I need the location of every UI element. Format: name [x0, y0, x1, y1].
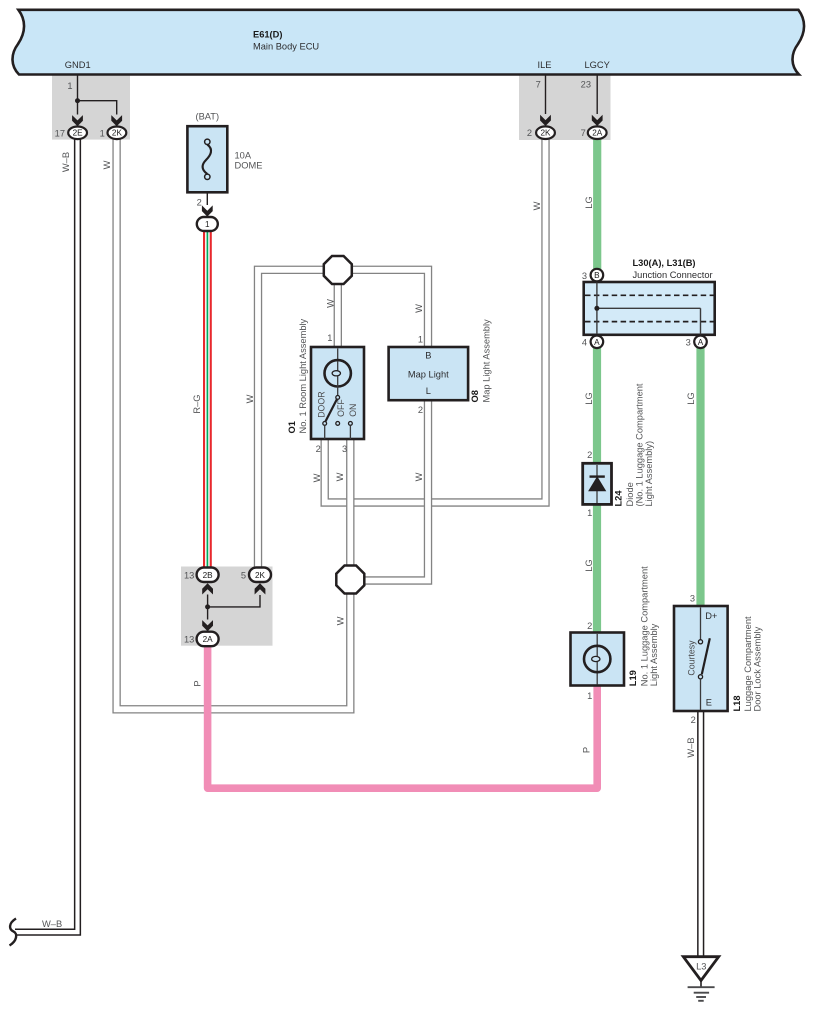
wire LG diode L24 to L19 pin2	[593, 503, 601, 634]
terminal circle 3(B)	[591, 269, 604, 282]
svg-text:L3: L3	[696, 962, 706, 972]
connector oval 2(2K)	[536, 126, 555, 139]
O1 switch common contact	[336, 396, 340, 400]
connector oval 13(2B)	[197, 568, 219, 583]
arrow into LGCY 2A	[592, 115, 603, 126]
junction internal wiring	[597, 277, 701, 338]
svg-text:L: L	[426, 386, 431, 396]
svg-text:2A: 2A	[203, 635, 214, 644]
svg-text:Light Assembly: Light Assembly	[649, 623, 659, 686]
svg-text:W: W	[245, 394, 255, 403]
continuation squiggle bottom-left	[10, 919, 17, 946]
wire W from O1 pin2 right and up to ILE 2(2K)	[325, 139, 546, 503]
svg-text:D+: D+	[705, 611, 717, 621]
svg-text:OFF: OFF	[336, 399, 346, 417]
svg-text:2B: 2B	[203, 571, 214, 580]
wire W O1 pin3 down to octagon S2	[346, 439, 354, 579]
svg-text:W–B: W–B	[61, 152, 71, 172]
wire W-B from 2E to bottom-left continuation	[15, 140, 78, 933]
svg-text:W: W	[414, 304, 424, 313]
svg-text:13: 13	[184, 570, 194, 580]
svg-text:(BAT): (BAT)	[196, 112, 220, 122]
arrow up into 2B	[202, 583, 213, 594]
junction connector L30(A),L31(B) box	[584, 282, 715, 335]
svg-text:3: 3	[690, 593, 695, 603]
junction dot 2B/2K/2A	[205, 604, 210, 609]
svg-text:ILE: ILE	[538, 60, 552, 70]
wire LG junction A right to L18 pin3	[696, 345, 704, 607]
svg-text:1: 1	[67, 81, 72, 91]
connector shield box 2B/2K/2A (gray)	[181, 567, 273, 646]
connector oval 5(2K)	[249, 568, 271, 583]
wire W octagon S1 right branch down to map light pin1	[338, 270, 428, 348]
arrow into 2E	[72, 115, 83, 126]
svg-text:W: W	[102, 160, 112, 169]
svg-text:P: P	[193, 680, 203, 686]
svg-text:Diode: Diode	[625, 482, 635, 506]
svg-text:5: 5	[241, 570, 246, 580]
svg-text:7: 7	[581, 128, 586, 138]
GND1 pin 1 wire and junction	[78, 75, 117, 115]
svg-text:L18: L18	[732, 695, 742, 711]
svg-text:Map Light Assembly: Map Light Assembly	[482, 319, 492, 403]
L18 courtesy switch	[700, 608, 702, 640]
svg-text:E: E	[706, 697, 712, 707]
svg-text:B: B	[594, 271, 600, 280]
svg-text:LGCY: LGCY	[585, 60, 610, 70]
svg-text:R–G: R–G	[192, 394, 202, 413]
svg-text:W: W	[532, 201, 542, 210]
ILE pin 7 wire	[545, 75, 547, 114]
svg-text:23: 23	[581, 80, 591, 90]
ground L3	[683, 957, 718, 981]
connector oval 1	[197, 217, 218, 231]
wire P from 2A to L19 pin1 (pink)	[208, 645, 598, 788]
svg-text:DOME: DOME	[235, 161, 263, 171]
svg-text:O8: O8	[470, 390, 480, 402]
connector oval 13(2A)	[197, 632, 219, 647]
luggage light L19 box	[571, 633, 625, 686]
O1 contacts DOOR OFF ON	[323, 422, 327, 426]
svg-text:ON: ON	[348, 404, 358, 417]
svg-text:B: B	[425, 350, 431, 360]
wire LG LGCY 2A to junction B	[593, 139, 601, 272]
svg-text:Main Body ECU: Main Body ECU	[253, 42, 319, 52]
O1 switch blade	[325, 399, 337, 422]
svg-text:4: 4	[582, 337, 587, 347]
svg-text:W: W	[326, 299, 336, 308]
connector oval 7(2A)	[588, 126, 607, 139]
svg-text:A: A	[594, 338, 600, 347]
terminal circle 3(A) right	[694, 336, 707, 349]
diode L24 box	[583, 463, 612, 504]
svg-text:1: 1	[587, 508, 592, 518]
svg-text:W–B: W–B	[42, 919, 62, 929]
arrow into ILE 2K	[540, 115, 551, 126]
fuse element symbol	[203, 145, 211, 175]
ECU E61(D) banner	[12, 10, 804, 75]
wire W map light pin2 down to octagon S2	[363, 400, 428, 581]
svg-text:13: 13	[184, 634, 194, 644]
svg-text:2: 2	[316, 444, 321, 454]
svg-text:No. 1 Room Light Assembly: No. 1 Room Light Assembly	[298, 318, 308, 433]
wire LG junction A to diode L24	[593, 345, 601, 465]
wire W from 1(2K) down and right up to octagon S2	[117, 140, 351, 710]
svg-text:A: A	[698, 338, 704, 347]
svg-text:E61(D): E61(D)	[253, 30, 282, 40]
svg-text:3: 3	[582, 271, 587, 281]
svg-text:LG: LG	[686, 392, 696, 404]
svg-text:Light Assembly): Light Assembly)	[644, 441, 654, 507]
svg-text:Luggage Compartment: Luggage Compartment	[743, 616, 753, 712]
O1 lamp symbol	[337, 349, 339, 362]
svg-text:L24: L24	[614, 490, 624, 507]
svg-text:L30(A), L31(B): L30(A), L31(B)	[633, 258, 696, 268]
svg-text:P: P	[582, 747, 592, 753]
svg-text:2: 2	[587, 450, 592, 460]
svg-text:3: 3	[342, 444, 347, 454]
arrow into 2K	[111, 115, 122, 126]
svg-text:W: W	[335, 472, 345, 481]
svg-text:Door Lock Assembly: Door Lock Assembly	[753, 626, 763, 711]
svg-text:2: 2	[197, 197, 202, 207]
svg-text:1: 1	[327, 333, 332, 343]
arrow up into 2K(5)	[255, 583, 266, 594]
map light O8 box	[389, 347, 469, 400]
connector shield box ILE/LGCY (gray)	[519, 74, 611, 140]
node S2 octagon splice	[336, 566, 364, 594]
wire W-B from L18 pin2 to ground L3	[697, 710, 704, 957]
svg-text:W: W	[312, 473, 322, 482]
connector oval 1(2K)	[108, 127, 127, 140]
node S1 octagon splice	[324, 256, 352, 284]
connector oval 17(2E)	[68, 127, 87, 140]
svg-text:Map Light: Map Light	[408, 370, 449, 380]
door lock L18 box	[674, 606, 728, 711]
wire W octagon S1 down to O1 pin1	[334, 270, 342, 348]
L19 lamp symbol	[596, 634, 598, 685]
svg-text:Courtesy: Courtesy	[687, 640, 697, 676]
junction internal node dot	[594, 306, 599, 311]
svg-text:W–B: W–B	[686, 737, 696, 757]
junction connector dashed rows	[585, 294, 714, 296]
svg-text:LG: LG	[584, 196, 594, 208]
svg-text:2: 2	[527, 128, 532, 138]
fuse pin 2 wire	[206, 192, 208, 205]
svg-text:2: 2	[691, 715, 696, 725]
svg-text:O1: O1	[287, 421, 297, 433]
svg-text:3: 3	[686, 337, 691, 347]
wire R-G from fuse oval 1 to 2B	[203, 230, 212, 568]
svg-text:1: 1	[205, 220, 210, 229]
svg-text:2K: 2K	[540, 129, 551, 138]
connector shield box GND1 (gray)	[52, 74, 130, 140]
svg-text:L19: L19	[628, 670, 638, 686]
svg-text:2E: 2E	[73, 129, 84, 138]
wire W octagon S1 left branch down to 5(2K)	[258, 270, 338, 567]
svg-text:2A: 2A	[592, 129, 603, 138]
svg-text:W: W	[336, 616, 346, 625]
svg-text:LG: LG	[584, 392, 594, 404]
svg-text:7: 7	[536, 80, 541, 90]
svg-text:2K: 2K	[112, 129, 123, 138]
svg-text:2: 2	[418, 405, 423, 415]
svg-text:1: 1	[418, 334, 423, 344]
svg-text:(No. 1 Luggage Compartment: (No. 1 Luggage Compartment	[634, 383, 644, 506]
svg-text:W: W	[414, 472, 424, 481]
svg-text:DOOR: DOOR	[316, 391, 326, 417]
svg-text:10A: 10A	[235, 151, 252, 161]
diode symbol	[589, 477, 605, 491]
arrow down into 2A	[202, 620, 213, 631]
fuse 10A DOME box	[187, 126, 227, 192]
svg-text:Junction Connector: Junction Connector	[633, 270, 713, 280]
terminal circle 4(A)	[591, 336, 604, 349]
svg-text:17: 17	[55, 129, 65, 139]
svg-text:LG: LG	[584, 559, 594, 571]
svg-text:1: 1	[587, 691, 592, 701]
LGCY pin 23 wire	[596, 75, 598, 114]
junction dot GND1	[75, 98, 80, 103]
svg-text:2K: 2K	[255, 571, 266, 580]
svg-text:GND1: GND1	[65, 60, 91, 70]
middle connector 2B/2K/2A wiring	[208, 595, 260, 620]
arrow into oval 1	[202, 205, 213, 216]
svg-text:2: 2	[587, 621, 592, 631]
room light O1 box	[311, 347, 364, 439]
svg-text:1: 1	[100, 129, 105, 139]
svg-text:No. 1 Luggage Compartment: No. 1 Luggage Compartment	[640, 566, 650, 686]
